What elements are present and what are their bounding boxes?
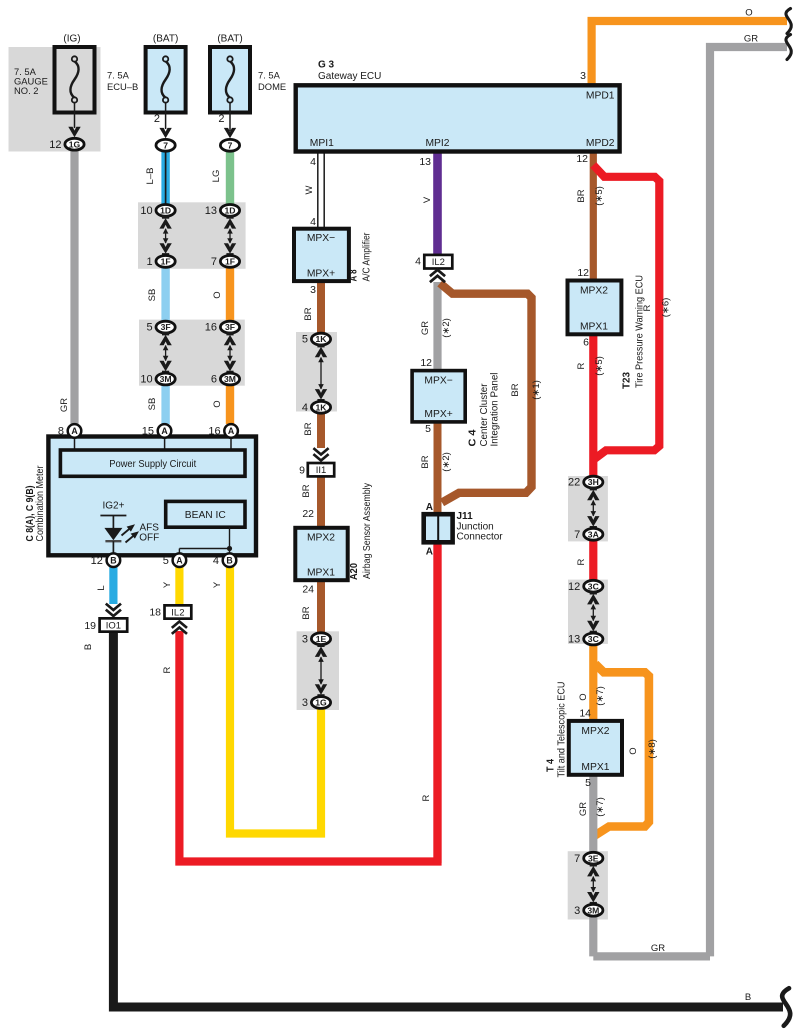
connector (7) ecu-b (156, 139, 175, 151)
label BR below II1 (301, 484, 312, 497)
svg-text:V: V (422, 196, 433, 203)
svg-text:Y: Y (212, 581, 223, 588)
svg-text:16: 16 (208, 426, 220, 438)
svg-text:II1: II1 (316, 465, 327, 476)
break squiggle orange (786, 9, 791, 34)
svg-text:A: A (426, 502, 433, 513)
wire R red J11 down (433, 541, 441, 863)
arrows 3E-3M (587, 863, 599, 906)
junction IL2 arrows (430, 270, 445, 282)
label 4 IL2 (415, 256, 421, 268)
svg-text:3M: 3M (160, 374, 172, 384)
svg-text:(IG): (IG) (63, 34, 80, 45)
svg-text:3F: 3F (225, 322, 235, 332)
svg-text:Combination Meter: Combination Meter (35, 465, 46, 542)
wire R red branch (*6) from BR (593, 165, 659, 460)
svg-text:7: 7 (574, 529, 580, 541)
fuse 7.5A GAUGE NO.2 (14, 34, 95, 138)
svg-text:Integration Panel: Integration Panel (490, 373, 501, 447)
label A above J11 (426, 502, 433, 513)
label 22 A20 (302, 508, 314, 520)
svg-text:R: R (576, 362, 587, 369)
svg-text:IL2: IL2 (171, 607, 184, 618)
svg-text:(∗2): (∗2) (441, 452, 452, 472)
meter pin 16 (A) (208, 424, 238, 438)
svg-text:13: 13 (419, 156, 431, 168)
label O top wire (745, 8, 752, 19)
svg-text:T 4: T 4 (546, 759, 557, 772)
svg-text:(∗1): (∗1) (531, 380, 542, 400)
arrows 1K-1K (315, 344, 327, 403)
wire SB 1F to 3F (161, 266, 169, 322)
wire L blue from meter pin 12 (109, 566, 117, 604)
svg-text:5: 5 (163, 555, 169, 567)
label R (*6) (642, 298, 672, 318)
svg-text:B: B (226, 555, 232, 565)
ECU G3 Gateway ECU box (296, 60, 620, 152)
svg-text:O: O (212, 291, 223, 298)
label R between (576, 558, 587, 565)
svg-text:5: 5 (302, 334, 308, 346)
junction J11 box (424, 514, 453, 542)
svg-text:7. 5A: 7. 5A (258, 70, 281, 81)
svg-text:6: 6 (211, 374, 217, 386)
shaded area fuse GAUGE NO.2 (9, 47, 101, 152)
svg-text:5: 5 (585, 777, 591, 789)
svg-text:MPX−: MPX− (307, 233, 335, 244)
label 13 MPI2 (419, 156, 431, 168)
svg-text:3: 3 (302, 633, 308, 645)
label Y wire 1 (162, 581, 173, 588)
svg-text:5: 5 (146, 322, 152, 334)
svg-text:1F: 1F (161, 257, 171, 267)
svg-text:GR: GR (651, 943, 665, 954)
label L wire (96, 585, 107, 590)
svg-text:7: 7 (163, 140, 168, 150)
svg-text:BEAN IC: BEAN IC (185, 510, 226, 521)
svg-text:W: W (304, 185, 315, 194)
label O upper (212, 291, 223, 298)
svg-text:BR: BR (576, 189, 587, 202)
label T4 Tilt and Telescopic ECU (546, 682, 568, 778)
svg-text:A 8: A 8 (349, 269, 360, 281)
svg-text:Gateway ECU: Gateway ECU (318, 71, 381, 82)
svg-text:Center Cluster: Center Cluster (479, 383, 490, 447)
label BR below A20 (301, 606, 312, 619)
svg-text:NO. 2: NO. 2 (14, 85, 39, 96)
connector 7 (3E) (574, 852, 603, 865)
shaded area connectors 1E-1G (297, 631, 339, 710)
svg-text:A: A (161, 426, 168, 436)
shaded area connectors 1K-1K (296, 332, 337, 412)
svg-text:4: 4 (415, 256, 421, 268)
label 5 below C4 (425, 423, 431, 435)
break squiggle black bottom (782, 988, 790, 1026)
ECU C4 Center Cluster Integration Panel box (412, 371, 465, 422)
svg-text:22: 22 (568, 477, 580, 489)
arrows 3H-3A (587, 487, 599, 530)
wire GR gray right vertical from right edge down (710, 47, 787, 956)
shaded area connectors 3E-3M (568, 851, 608, 919)
shaded area connectors 1D-1F (138, 202, 246, 268)
connector 13 (1D) (205, 205, 240, 218)
svg-text:(∗7): (∗7) (595, 797, 606, 817)
svg-text:Power Supply Circuit: Power Supply Circuit (109, 459, 196, 470)
LED indicator IG2+ (100, 500, 126, 553)
label R red J11 wire (421, 794, 432, 801)
label 4 MPI1 bottom (310, 216, 316, 228)
svg-text:MPX1: MPX1 (307, 568, 335, 579)
shaded area connectors 3F-3M (139, 320, 245, 386)
wire GR gray T4 pin5 to 3E (589, 772, 597, 854)
svg-text:(∗2): (∗2) (441, 318, 452, 338)
label B wire (83, 644, 94, 650)
svg-text:5: 5 (425, 423, 431, 435)
junction 18 IL2 (149, 605, 191, 618)
wire O orange 13-3C to T4 pin 14 (589, 644, 597, 723)
power supply circuit box (60, 450, 245, 476)
svg-text:BR: BR (303, 422, 314, 435)
svg-text:O: O (745, 8, 752, 19)
wire BR brown A20 to 1E (317, 578, 325, 634)
svg-text:IL2: IL2 (432, 257, 445, 268)
svg-text:4: 4 (213, 555, 219, 567)
arrows 3F-3M right (224, 332, 236, 375)
connector 5 (1K) (302, 333, 331, 346)
svg-text:MPD2: MPD2 (586, 138, 615, 149)
wire BR brown C4 pin 5 to J11 (434, 420, 442, 516)
connector (7) dome (220, 139, 239, 151)
svg-text:MPX1: MPX1 (581, 762, 609, 773)
arrows 3F-3M left (159, 332, 171, 375)
label 12 MPD2 (576, 153, 588, 165)
svg-text:6: 6 (583, 337, 589, 349)
junction 4 IL2 (424, 255, 452, 269)
svg-text:MPX+: MPX+ (307, 269, 335, 280)
wire O orange 1F to 3F (226, 266, 234, 322)
wire BR brown 1K to II1 (317, 411, 325, 448)
label 12 C4 (420, 357, 432, 369)
wire BR brown branch (*1) around C4 (440, 283, 532, 502)
svg-text:13: 13 (568, 634, 580, 646)
connector 3 (1E) (302, 633, 331, 646)
svg-text:MPI1: MPI1 (310, 138, 334, 149)
connector 5 (3F) (146, 321, 175, 334)
svg-text:IO1: IO1 (106, 620, 121, 631)
junction II1 arrows (313, 448, 328, 460)
svg-text:3F: 3F (161, 322, 171, 332)
svg-text:12: 12 (420, 357, 432, 369)
label BR (*1) (510, 380, 542, 400)
label V wire (422, 196, 433, 203)
svg-text:24: 24 (302, 584, 314, 596)
label A20 Airbag Sensor Assembly (349, 483, 373, 580)
wire R red from IL2 down and right to J11 (179, 545, 437, 862)
label B bottom wire (745, 992, 751, 1003)
connector 7 (1F) (211, 256, 240, 269)
svg-text:7: 7 (211, 256, 217, 268)
connector 10 (3M) (140, 373, 175, 386)
junction 19 IO1 (84, 618, 127, 632)
label 3 below A/C (310, 284, 316, 296)
svg-text:3: 3 (580, 70, 586, 82)
label T23 Tire Pressure Warning ECU (622, 275, 646, 389)
svg-text:O: O (212, 400, 223, 407)
label L-B (145, 168, 156, 185)
svg-text:BR: BR (301, 606, 312, 619)
label O lower (212, 400, 223, 407)
arrows 1E-1G (315, 643, 327, 697)
label 14 T4 (579, 708, 591, 720)
svg-text:Airbag Sensor Assembly: Airbag Sensor Assembly (362, 483, 373, 579)
wire O orange 3M to pin 16 (226, 384, 234, 424)
arrows 1D-1F right (224, 215, 236, 257)
label 5 T4 (585, 777, 591, 789)
svg-text:DOME: DOME (258, 81, 286, 92)
label A below J11 (426, 547, 433, 558)
svg-text:3: 3 (310, 284, 316, 296)
svg-text:LG: LG (211, 170, 222, 183)
svg-text:7. 5A: 7. 5A (107, 70, 130, 81)
LED arrows AFS OFF (122, 523, 160, 544)
svg-text:16: 16 (205, 322, 217, 334)
svg-text:L–B: L–B (145, 168, 156, 185)
connector 3 (1G) (302, 697, 331, 710)
wire L-B blue w/black stripe (161, 151, 169, 205)
svg-text:1K: 1K (316, 334, 328, 344)
label BR below 1K (303, 422, 314, 435)
svg-text:O: O (628, 747, 639, 754)
svg-text:(∗8): (∗8) (647, 739, 658, 759)
svg-text:3C: 3C (588, 634, 599, 644)
svg-text:Tilt and Telescopic ECU: Tilt and Telescopic ECU (557, 682, 568, 778)
label 6 T23 (583, 337, 589, 349)
meter pin 12 (B) (91, 553, 121, 567)
svg-text:14: 14 (579, 708, 591, 720)
connector 1 (1F) (146, 256, 175, 269)
wire R red T23 pin6 to 3H (589, 332, 597, 478)
svg-text:1E: 1E (316, 634, 327, 644)
svg-text:1: 1 (146, 256, 152, 268)
svg-text:GR: GR (420, 321, 431, 335)
svg-text:7: 7 (574, 853, 580, 865)
svg-text:MPX2: MPX2 (580, 286, 608, 297)
label Y wire 2 (212, 581, 223, 588)
svg-text:3E: 3E (588, 853, 599, 863)
svg-text:2: 2 (154, 113, 160, 125)
svg-text:GR: GR (744, 34, 758, 45)
meter pin 15 (A) (142, 424, 172, 438)
junction 9 II1 (299, 463, 334, 477)
junction IO1 arrows (106, 604, 121, 616)
svg-text:15: 15 (142, 426, 154, 438)
wire Y yellow from meter pin 5 to IL2 (175, 566, 183, 606)
svg-text:R: R (162, 666, 173, 673)
svg-text:Y: Y (162, 581, 173, 588)
svg-text:B: B (83, 644, 94, 650)
svg-text:MPX−: MPX− (424, 376, 452, 387)
label C4 Center Cluster Integration Panel (468, 373, 501, 447)
svg-text:G 3: G 3 (318, 60, 335, 71)
connector 16 (3F) (205, 321, 240, 334)
label SB lower (147, 398, 158, 411)
svg-text:BR: BR (510, 383, 521, 396)
svg-text:C 4: C 4 (468, 429, 479, 446)
svg-text:BR: BR (303, 307, 314, 320)
ECU T4 Tilt and Telescopic box (569, 721, 622, 775)
break squiggle gray (786, 35, 791, 60)
connector 7 (3A) (574, 528, 603, 541)
label R wire left (162, 666, 173, 673)
svg-text:3: 3 (574, 905, 580, 917)
arrows 1D-1F left (159, 215, 171, 257)
svg-text:L: L (96, 585, 107, 590)
label GR gauge wire (59, 398, 70, 412)
svg-text:A: A (71, 426, 78, 436)
wire GR gray horizontal bottom to 3M (593, 952, 710, 960)
svg-text:1G: 1G (69, 139, 81, 149)
wires pins to power supply circuit (75, 437, 232, 452)
svg-text:R: R (576, 558, 587, 565)
svg-text:(∗5): (∗5) (594, 356, 605, 376)
svg-text:12: 12 (577, 267, 589, 279)
svg-text:SB: SB (147, 398, 158, 411)
label BR above 1K (303, 307, 314, 320)
label O (*7) above T4 (578, 686, 606, 706)
svg-text:(∗6): (∗6) (661, 298, 672, 318)
svg-text:2: 2 (218, 113, 224, 125)
BEAN IC box (166, 501, 245, 527)
BEAN IC to pins wiring (179, 527, 232, 553)
svg-text:T23: T23 (622, 372, 633, 389)
svg-text:3H: 3H (588, 477, 599, 487)
svg-text:BR: BR (420, 455, 431, 468)
fuse 7.5A DOME (210, 34, 286, 139)
label SB upper (147, 289, 158, 302)
svg-text:(∗7): (∗7) (595, 686, 606, 706)
wire W white double line MPI1 to A/C amplifier (318, 151, 324, 229)
wire BR brown MPD2 to T23 (590, 150, 597, 282)
connector 4 (1K) (302, 401, 331, 414)
svg-text:8: 8 (58, 426, 64, 438)
svg-text:MPI2: MPI2 (425, 138, 449, 149)
svg-text:MPX2: MPX2 (307, 533, 335, 544)
shaded area connectors 3C-3C (568, 580, 608, 644)
svg-text:13: 13 (205, 205, 217, 217)
wire O orange branch (*8) around T4 (593, 664, 649, 837)
wire BR brown II1 to A20 (317, 477, 325, 529)
ECU A20 Airbag Sensor Assembly box (295, 528, 347, 580)
wire SB 3M to pin 15 (161, 384, 169, 424)
svg-text:3M: 3M (587, 905, 599, 915)
wire O orange from MPD1 to right edge (592, 21, 787, 90)
label 12 T23 (577, 267, 589, 279)
svg-text:ECU–B: ECU–B (107, 81, 138, 92)
svg-text:GR: GR (59, 398, 70, 412)
svg-text:A: A (176, 555, 183, 565)
svg-text:A: A (228, 426, 235, 436)
label 4 MPI1 top (310, 156, 316, 168)
label A8 A/C Amplifier (349, 232, 373, 282)
meter pin 4 (B) (213, 553, 236, 567)
label R (*5) (576, 356, 605, 376)
svg-text:MPX+: MPX+ (424, 409, 452, 420)
svg-text:(BAT): (BAT) (217, 34, 242, 45)
wire BR brown A/C amp to 1K (317, 279, 325, 335)
label 24 below A20 (302, 584, 314, 596)
label BR (*2) (420, 452, 452, 472)
svg-text:GR: GR (578, 802, 589, 816)
svg-text:Connector: Connector (457, 531, 504, 542)
svg-text:MPD1: MPD1 (586, 91, 615, 102)
label BR (*5) (576, 186, 605, 206)
label W wire (304, 185, 315, 194)
label GR top wire (744, 34, 758, 45)
label O (*8) (628, 739, 658, 759)
junction IL2-18 arrows (172, 622, 187, 634)
wire Y yellow from meter pin 4 down right and up to 1G (230, 566, 321, 834)
svg-text:Tire Pressure Warning ECU: Tire Pressure Warning ECU (635, 275, 646, 388)
label GR bottom (651, 943, 665, 954)
wire V purple MPI2 to IL2 (433, 151, 442, 256)
svg-text:IG2+: IG2+ (103, 500, 125, 511)
svg-text:BR: BR (301, 484, 312, 497)
svg-text:OFF: OFF (139, 533, 159, 544)
svg-text:3M: 3M (224, 374, 236, 384)
label GR (*2) (420, 318, 452, 338)
svg-text:12: 12 (576, 153, 588, 165)
svg-text:12: 12 (91, 555, 103, 567)
svg-text:9: 9 (299, 465, 305, 477)
meter pin 5 (A) (163, 553, 186, 567)
label LG (211, 170, 222, 183)
fuse 7.5A ECU-B (107, 34, 186, 139)
svg-text:A: A (426, 547, 433, 558)
svg-text:B: B (745, 992, 751, 1003)
wire GR gray 3M up (589, 915, 597, 956)
svg-text:O: O (578, 693, 589, 700)
svg-text:4: 4 (302, 402, 308, 414)
svg-text:(BAT): (BAT) (153, 34, 178, 45)
svg-text:B: B (110, 555, 116, 565)
connector 6 (3M) (211, 373, 240, 386)
wire GR gray gauge fuse to meter pin 8 (70, 150, 78, 424)
svg-text:22: 22 (302, 508, 314, 520)
shaded area connectors 3H-3A (568, 476, 608, 541)
svg-text:3A: 3A (588, 529, 599, 539)
connector 22 (3H) (568, 476, 603, 489)
svg-text:A/C Amplifier: A/C Amplifier (362, 232, 373, 282)
connector 13 (3C) (568, 633, 603, 646)
wire R red 3A to 3C (589, 539, 597, 582)
svg-text:4: 4 (310, 216, 316, 228)
connector 3 (3M) (574, 904, 603, 917)
svg-text:3C: 3C (588, 581, 599, 591)
svg-text:10: 10 (140, 374, 152, 386)
svg-text:1D: 1D (160, 206, 171, 216)
svg-text:MPX2: MPX2 (581, 726, 609, 737)
svg-text:1F: 1F (225, 257, 235, 267)
svg-text:A20: A20 (349, 563, 360, 580)
svg-text:12: 12 (49, 139, 61, 151)
connector 12 (3C) (568, 580, 603, 593)
label J11 Junction Connector (457, 511, 504, 542)
svg-text:1D: 1D (225, 206, 236, 216)
ECU A8 A/C Amplifier box (294, 229, 349, 281)
svg-text:7: 7 (228, 140, 233, 150)
svg-text:10: 10 (140, 205, 152, 217)
label GR (*7) below T4 (578, 797, 606, 817)
